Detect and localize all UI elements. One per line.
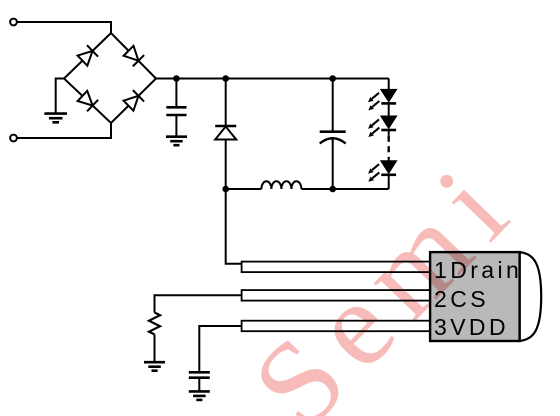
wire: pin 2 to resistor <box>155 295 243 312</box>
wire: C2 bottom lead <box>332 140 334 190</box>
wire: C1 top lead <box>175 79 177 107</box>
diode D1 (freewheel, pointing up) <box>215 125 236 127</box>
wire: bridge left vertex to ground <box>56 79 64 114</box>
ground (bridge) <box>44 114 67 123</box>
pin 2 lead <box>242 290 432 301</box>
bridge diode top-right <box>123 45 144 66</box>
IC U1 package rounded back <box>520 252 542 341</box>
wire: top input to bridge top vertex <box>17 22 111 33</box>
LED1 <box>381 90 396 102</box>
node: bottom rail / drain junction <box>222 186 229 193</box>
IC U1 package body <box>430 252 519 341</box>
pin 3 lead <box>242 321 432 332</box>
node: rail / C2 junction <box>329 75 336 82</box>
wire: resistor to ground <box>154 334 156 361</box>
capacitor C2 (polarized) <box>320 130 346 133</box>
inductor L1 <box>261 181 301 189</box>
dashed wire (more LEDs) <box>388 136 390 159</box>
input terminal bottom <box>10 135 17 142</box>
wire: D1 anode to bottom rail <box>225 140 227 190</box>
node: bottom rail / C2 junction <box>329 186 336 193</box>
resistor R1 <box>149 313 160 335</box>
wire: C1 bottom lead <box>175 116 177 136</box>
wire: LED1 to LED2 <box>388 105 390 117</box>
capacitor C3 <box>189 372 210 377</box>
wire: top rail (bridge + to LED string) <box>156 78 389 80</box>
LED1 emission arrows <box>368 93 379 102</box>
bridge diode bottom-left <box>77 90 98 111</box>
wire: bottom input to bridge bottom vertex <box>17 123 111 138</box>
input terminal top <box>10 19 17 26</box>
bridge diode bottom-right <box>123 90 144 111</box>
LED3 emission arrows <box>368 164 379 173</box>
wire: bottom rail right of inductor <box>301 188 388 190</box>
ground (C3) <box>189 391 210 400</box>
wire: bottom rail left of inductor <box>226 188 262 190</box>
capacitor C1 <box>166 107 186 115</box>
wire: drain node down to pin 1 <box>226 189 242 264</box>
pin 1 lead <box>242 262 432 273</box>
bridge diode top-left <box>77 45 98 66</box>
bridge rectifier wires (diamond) <box>64 33 156 123</box>
wire: LED string bottom to rail <box>388 176 390 189</box>
wire: D1 cathode lead <box>225 79 227 126</box>
wire: LED string top <box>388 79 390 90</box>
wire: LED2 to dashed <box>388 131 390 136</box>
LED3 <box>381 161 396 173</box>
node: rail / C1 junction <box>173 75 180 82</box>
LED2 <box>381 116 396 128</box>
wire: dashed to LED3 <box>388 159 390 162</box>
wire: C2 top lead <box>332 79 334 132</box>
wire: pin 3 to C3 <box>199 326 242 372</box>
ground (C1) <box>166 137 187 146</box>
LED2 emission arrows <box>368 119 379 128</box>
wire: C3 to ground <box>198 379 200 391</box>
node: rail / D1 junction <box>222 75 229 82</box>
ground (R1) <box>144 362 165 371</box>
